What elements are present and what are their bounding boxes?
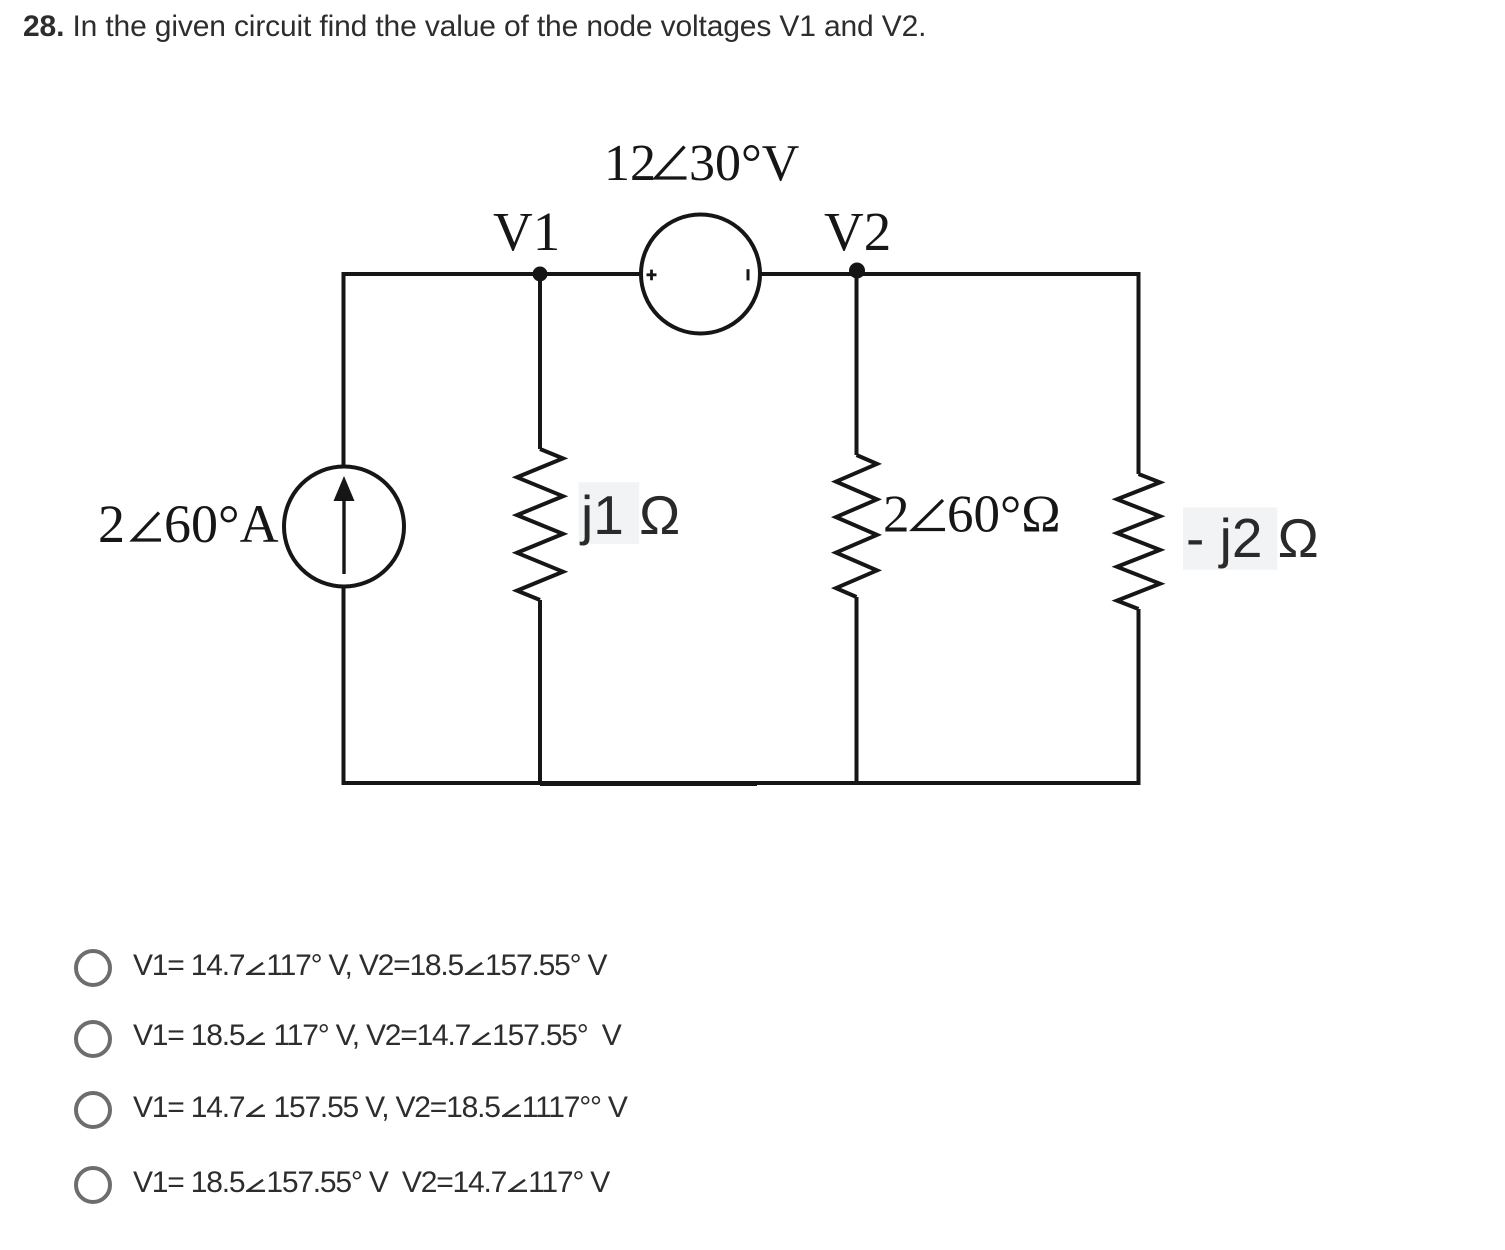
wire top-left segment (node V1 run) (344, 272, 642, 276)
option B radio button (74, 1020, 112, 1058)
current source arrow (342, 496, 345, 574)
wire branch V2 upper (855, 272, 859, 455)
wire top-right segment (to node V2 and corner) (761, 272, 1139, 276)
wire branch V1 upper (538, 274, 542, 449)
option C radio button (74, 1091, 112, 1129)
wire left vertical lower (342, 587, 346, 783)
label -j2 Ω highlight box (1183, 508, 1277, 570)
current source I=2∠60°A circle (284, 467, 404, 587)
label 2∠60°Ω (middle resistor) (883, 486, 1061, 544)
wire branch V1 lower (538, 600, 542, 783)
svg-text:2: 2 (98, 494, 125, 554)
option D radio button (74, 1166, 112, 1204)
node V1 junction dot (533, 267, 548, 282)
question title (23, 10, 926, 44)
voltage source minus terminal (747, 269, 750, 280)
label j1 Ω highlight box (579, 482, 640, 544)
option C text (133, 1089, 627, 1127)
svg-text:V2: V2 (824, 201, 891, 262)
option A radio button (74, 949, 112, 987)
wire right vertical upper (1137, 272, 1141, 474)
svg-text:V1: V1 (493, 201, 560, 262)
svg-text:30°V: 30°V (689, 135, 799, 192)
resistor 2∠60° zigzag (836, 455, 877, 597)
voltage source V=12∠30°V circle (641, 215, 760, 334)
wire bottom rail (344, 781, 1139, 785)
svg-text:12: 12 (604, 135, 656, 192)
wire branch V2 lower (855, 597, 859, 783)
svg-text:60°A: 60°A (164, 494, 279, 554)
svg-text:- j2 Ω: - j2 Ω (1186, 507, 1319, 569)
option D text (133, 1164, 609, 1202)
wire right vertical lower (1137, 609, 1141, 783)
svg-text:60°Ω: 60°Ω (947, 486, 1061, 544)
wire bottom rail overlap segment (540, 783, 757, 786)
option B text (133, 1017, 621, 1055)
label 12∠30°V (604, 135, 799, 192)
label 2∠60°A (current source) (98, 494, 279, 554)
node V2 junction dot (849, 263, 865, 279)
svg-text:j1 Ω: j1 Ω (579, 484, 680, 546)
svg-text:2: 2 (883, 486, 910, 544)
wire left vertical upper (342, 272, 346, 467)
resistor -j2 zigzag (1117, 474, 1160, 609)
option A text (133, 947, 606, 985)
voltage source plus terminal (647, 270, 657, 281)
resistor j1 zigzag (517, 449, 563, 600)
